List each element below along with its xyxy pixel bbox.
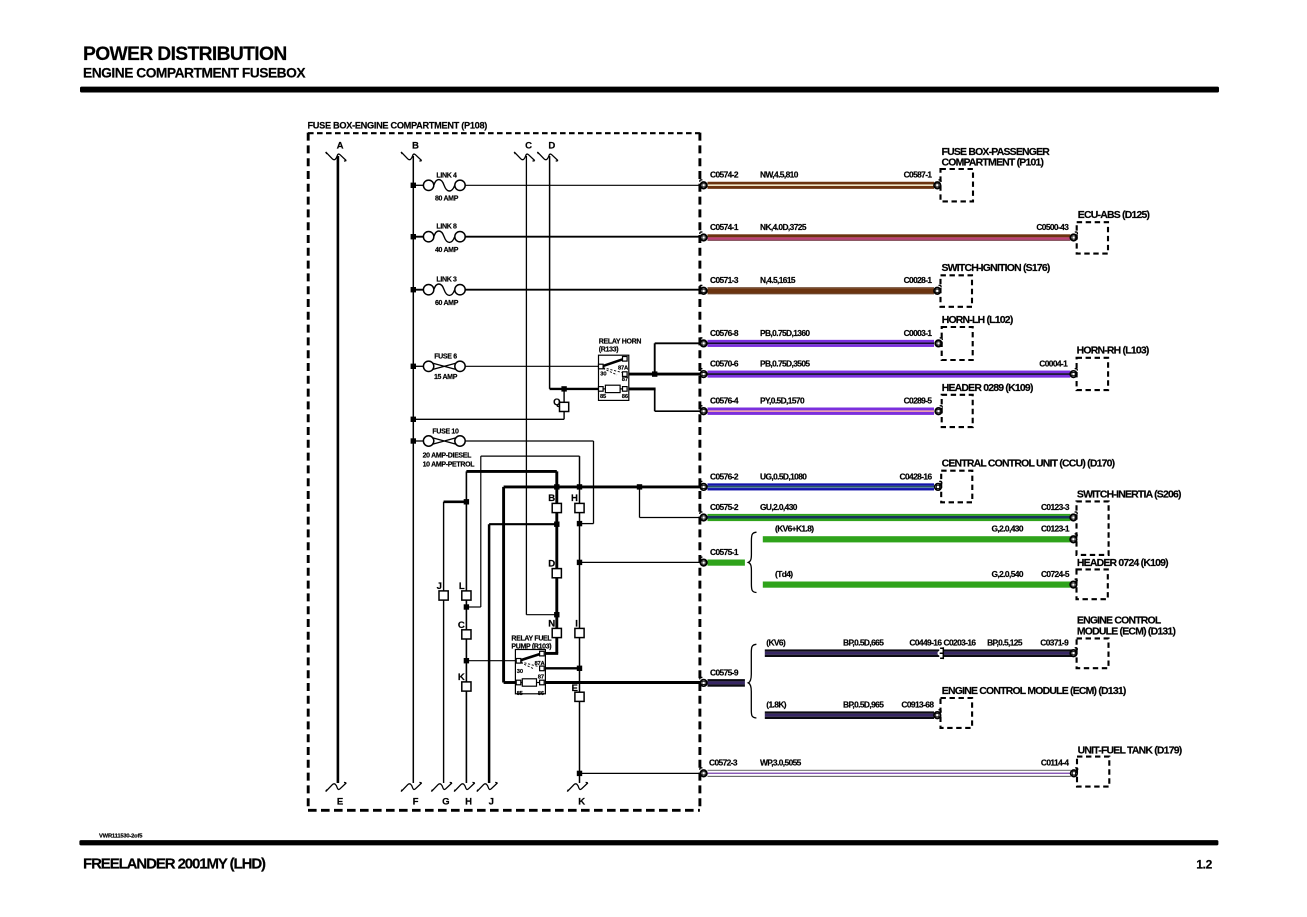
wire BP,0.5D,965 (1.8K) to C0913-68 [765, 700, 935, 719]
component L102 HORN-LH [942, 315, 1013, 360]
connector C0449-16 C0203-16 inline [938, 647, 944, 659]
wire horn87A output [655, 342, 704, 344]
svg-text:K: K [458, 672, 465, 683]
wire Q upper lead [563, 389, 565, 402]
connector C0500-43 [1070, 232, 1077, 241]
svg-text:C0289-5: C0289-5 [904, 396, 933, 406]
connector C0576-2 [700, 481, 707, 490]
svg-text:87: 87 [622, 377, 628, 383]
connector pin L (fusebox) [459, 581, 471, 600]
svg-text:HEADER 0289 (K109): HEADER 0289 (K109) [942, 383, 1033, 394]
terminal B [401, 152, 422, 161]
svg-text:FUSE 10: FUSE 10 [432, 428, 459, 435]
svg-text:SWITCH-INERTIA (S206): SWITCH-INERTIA (S206) [1077, 489, 1181, 500]
svg-text:C0123-3: C0123-3 [1041, 502, 1070, 512]
connector C0428-16 [935, 481, 942, 490]
component P101 FUSE BOX-PASSENGER COMPARTMENT [941, 147, 1051, 202]
connector C0003-1 [935, 338, 942, 347]
wire fuel relay30 input [466, 660, 516, 662]
node junction 579.5,486.9 [577, 484, 582, 489]
connector pin J (fusebox) [437, 581, 449, 600]
svg-text:BP,0.5D,665: BP,0.5D,665 [843, 638, 884, 648]
wire C link y615 [526, 614, 556, 616]
brace split C0575-9 [748, 644, 756, 718]
wire bus D down [549, 156, 551, 389]
svg-text:LINK 3: LINK 3 [436, 277, 457, 284]
component K109 HEADER 0289 [942, 383, 1033, 427]
node junction 413.3,419.3 [411, 417, 416, 422]
svg-text:HEADER 0724 (K109): HEADER 0724 (K109) [1077, 558, 1168, 569]
svg-text:LINK 4: LINK 4 [436, 172, 457, 179]
svg-text:UG,0.5D,1080: UG,0.5D,1080 [760, 471, 807, 481]
svg-text:BP,0.5D,965: BP,0.5D,965 [843, 700, 884, 710]
wire horn86 drop [654, 389, 656, 411]
svg-text:C0571-3: C0571-3 [710, 275, 739, 285]
wire GU feed y517 [640, 517, 704, 519]
wire C0575-1 feed y562 [580, 561, 704, 563]
svg-text:60 AMP: 60 AMP [435, 300, 459, 307]
svg-text:FUSE 6: FUSE 6 [434, 354, 457, 361]
wire fuse10 link to K column [580, 523, 594, 525]
svg-text:30: 30 [600, 371, 606, 377]
svg-text:N,4.5,1615: N,4.5,1615 [760, 275, 796, 285]
node junction 413.3,441 [411, 438, 416, 443]
terminal F [401, 782, 422, 791]
node junction 654.7,374.1 [652, 371, 657, 376]
component D131 ENGINE CONTROL MODULE (top) [1077, 615, 1176, 668]
svg-text:30: 30 [517, 669, 523, 675]
node junction 413.3,289.7 [411, 287, 416, 292]
svg-text:CENTRAL CONTROL UNIT (CCU) (D1: CENTRAL CONTROL UNIT (CCU) (D170) [942, 459, 1115, 470]
connector C0576-8 [700, 338, 707, 347]
svg-text:C0428-16: C0428-16 [900, 471, 933, 481]
wire GU,2.0,430 C0575-2 to C0123-3 [708, 502, 1071, 521]
svg-text:87A: 87A [618, 365, 629, 371]
svg-text:POWER DISTRIBUTION: POWER DISTRIBUTION [83, 44, 287, 65]
connector C0913-68 [934, 710, 941, 719]
wire Q lower lead [563, 412, 565, 420]
connector C0004-1 [1070, 369, 1077, 378]
svg-text:(KV6+K1.8): (KV6+K1.8) [775, 524, 814, 534]
wire PB,0.75D,3505 C0570-6 to C0004-1 [708, 359, 1071, 378]
svg-text:HORN-LH (L102): HORN-LH (L102) [942, 315, 1013, 326]
svg-text:FUSE BOX-ENGINE COMPARTMENT (P: FUSE BOX-ENGINE COMPARTMENT (P108) [308, 120, 488, 130]
wire x481 top link [481, 455, 580, 457]
svg-text:15 AMP: 15 AMP [434, 374, 458, 381]
svg-text:C0123-1: C0123-1 [1041, 524, 1070, 534]
terminal C [514, 152, 535, 161]
connector pin Q (fusebox) [553, 397, 569, 412]
wire fuse10 output [466, 440, 594, 442]
connector C0576-4 [700, 406, 707, 415]
svg-text:J: J [437, 581, 442, 592]
svg-text:85: 85 [517, 691, 524, 697]
svg-text:C0574-2: C0574-2 [710, 170, 739, 180]
svg-text:WP,3.0,5055: WP,3.0,5055 [760, 758, 802, 768]
svg-text:FREELANDER 2001MY (LHD): FREELANDER 2001MY (LHD) [83, 855, 266, 872]
svg-text:HORN-RH (L103): HORN-RH (L103) [1077, 346, 1149, 357]
svg-text:L: L [459, 581, 465, 592]
connector C0575-1 [700, 557, 707, 566]
fuse FUSE10 [423, 436, 433, 446]
terminal G [431, 782, 452, 791]
connector C0123-1 [1070, 534, 1077, 543]
svg-text:C0371-9: C0371-9 [1040, 638, 1069, 648]
node junction 466.4,501.8 [464, 499, 469, 504]
connector pin I (fusebox) [575, 618, 584, 637]
connector pin C (fusebox) [458, 620, 471, 639]
svg-text:40 AMP: 40 AMP [435, 247, 459, 254]
node junction 579.5,773.4 [577, 771, 582, 776]
svg-text:C0576-2: C0576-2 [710, 471, 739, 481]
svg-text:C0570-6: C0570-6 [710, 359, 739, 369]
wire link8 stub [413, 236, 424, 238]
svg-text:20 AMP-DIESEL: 20 AMP-DIESEL [423, 452, 473, 459]
component K109 HEADER 0724 [1077, 558, 1169, 599]
terminal K2 [567, 782, 588, 791]
svg-text:D: D [548, 141, 555, 152]
svg-text:SWITCH-IGNITION (S176): SWITCH-IGNITION (S176) [942, 263, 1050, 274]
wire fuel86 output C0575-9 [544, 681, 703, 684]
svg-text:C0449-16: C0449-16 [909, 638, 942, 648]
connector C0114-4 [1071, 768, 1078, 777]
node junction 579.5,668.3 [577, 666, 582, 671]
svg-text:C0724-5: C0724-5 [1041, 569, 1070, 579]
wire bus B-N column x557 [555, 471, 558, 653]
svg-text:G,2.0,430: G,2.0,430 [992, 524, 1024, 534]
svg-text:H: H [571, 493, 578, 504]
svg-text:LINK 8: LINK 8 [436, 224, 457, 231]
node junction 579.5,562.4 [577, 560, 582, 565]
wire WP,3.0,5055 C0572-3 to C0114-4 [708, 758, 1071, 777]
wire fuse6 stub [413, 365, 424, 367]
connector C0575-2 [700, 512, 707, 521]
fusible link LINK3 60A [423, 285, 433, 295]
svg-text:MODULE (ECM) (D131): MODULE (ECM) (D131) [1077, 627, 1176, 638]
svg-text:PY,0.5D,1570: PY,0.5D,1570 [760, 396, 805, 406]
connector pin E (fusebox) [571, 683, 584, 702]
wire UG,0.5D,1080 C0576-2 to C0428-16 [708, 471, 935, 490]
svg-text:B: B [548, 493, 555, 504]
svg-text:C0203-16: C0203-16 [944, 638, 977, 648]
svg-text:VWR111530-2of5: VWR111530-2of5 [99, 834, 143, 840]
svg-text:ENGINE CONTROL MODULE (ECM) (D: ENGINE CONTROL MODULE (ECM) (D131) [942, 686, 1126, 697]
svg-text:E: E [571, 683, 578, 694]
wire horn86 output [627, 387, 656, 390]
terminal E [326, 782, 347, 791]
svg-text:ENGINE COMPARTMENT FUSEBOX: ENGINE COMPARTMENT FUSEBOX [83, 66, 306, 81]
svg-text:C0028-1: C0028-1 [904, 275, 933, 285]
connector C0572-3 [700, 768, 707, 777]
svg-text:PB,0.75D,1360: PB,0.75D,1360 [760, 328, 810, 338]
svg-text:86: 86 [538, 691, 545, 697]
svg-text:COMPARTMENT (P101): COMPARTMENT (P101) [942, 157, 1044, 168]
wire link4 output [465, 184, 704, 186]
wire fuel87 output [544, 667, 579, 669]
wire link8 output [465, 236, 704, 238]
wire fuse10 drop x593 [593, 441, 595, 524]
svg-text:C0500-43: C0500-43 [1036, 222, 1069, 232]
svg-text:N: N [548, 618, 555, 629]
svg-text:UNIT-FUEL TANK (D179): UNIT-FUEL TANK (D179) [1078, 746, 1182, 757]
wire J-terminal link y524 [489, 523, 557, 525]
connector pin B (fusebox) [548, 493, 561, 513]
fusible link LINK8 40A [423, 232, 433, 242]
wire fuel85 feed [504, 681, 517, 684]
connector C0371-9 [1070, 648, 1077, 657]
wire connector-J column [443, 502, 445, 783]
connector C0028-1 [934, 285, 941, 294]
wire link3 stub [413, 289, 424, 291]
wire fuse6 to relay30 [466, 365, 599, 367]
component S176 SWITCH-IGNITION [941, 263, 1050, 307]
svg-text:1.2: 1.2 [1196, 857, 1212, 871]
wire horn87A riser [654, 343, 656, 374]
svg-text:RELAY FUEL: RELAY FUEL [511, 635, 552, 642]
svg-text:ECU-ABS (D125): ECU-ABS (D125) [1078, 210, 1150, 221]
svg-text:E: E [337, 797, 344, 808]
connector pin H (fusebox) [571, 493, 584, 513]
svg-text:C0572-3: C0572-3 [709, 758, 738, 768]
wire N,4.5,1615 C0571-3 to C0028-1 [708, 275, 935, 294]
wire fuel87A feed [544, 652, 558, 655]
svg-text:C0004-1: C0004-1 [1039, 359, 1068, 369]
svg-text:C0575-2: C0575-2 [710, 502, 739, 512]
terminal H2 [454, 782, 475, 791]
wire NW,4.5,810 C0574-2 to C0587-1 [708, 170, 935, 189]
svg-text:(R133): (R133) [599, 347, 618, 354]
svg-text:NK,4.0D,3725: NK,4.0D,3725 [760, 222, 807, 232]
component S206 SWITCH-INERTIA [1077, 489, 1182, 555]
wire NK,4.0D,3725 C0574-1 to C0500-43 [708, 222, 1071, 241]
node junction 564.1,388.9 [561, 386, 566, 391]
wire link3 output [465, 289, 704, 291]
terminal J2 [477, 782, 498, 791]
svg-text:B: B [412, 141, 419, 152]
node junction 466.4,660.7 [464, 658, 469, 663]
svg-text:PB,0.75D,3505: PB,0.75D,3505 [760, 359, 810, 369]
wire PB,0.75D,1360 C0576-8 to C0003-1 [708, 328, 935, 347]
node junction 413.3,366.3 [411, 364, 416, 369]
component D170 CENTRAL CONTROL UNIT [941, 459, 1114, 503]
svg-text:F: F [413, 797, 419, 808]
component L103 HORN-RH [1077, 346, 1149, 390]
wire bus B-F [412, 156, 414, 783]
wire B to Q [413, 418, 564, 420]
wire L link y607 [466, 606, 480, 608]
wire WP feed y773 [580, 772, 704, 774]
brace split C0575-1 [748, 532, 756, 592]
wire link column x481 [480, 456, 482, 607]
wire G,2.0,540 (Td4) to C0724-5 [763, 569, 1071, 588]
svg-text:Q: Q [553, 397, 561, 408]
wire stub C0575-1 [708, 547, 745, 566]
connector pin N (fusebox) [548, 618, 561, 637]
wire stub C0575-9 [708, 667, 745, 686]
terminal A [326, 152, 347, 161]
wire fuse10 stub [413, 440, 424, 442]
wire PY,0.5D,1570 C0576-4 to C0289-5 [708, 396, 935, 415]
svg-text:87A: 87A [535, 661, 546, 667]
connector C0570-6 [700, 369, 707, 378]
wire bus C down [525, 156, 527, 615]
component D125 ECU-ABS [1077, 210, 1150, 253]
svg-text:85: 85 [600, 394, 607, 400]
svg-text:A: A [337, 141, 344, 152]
connector C0571-3 [700, 285, 707, 294]
relay R103 RELAY FUEL PUMP [511, 635, 552, 697]
node junction 466.4,607 [464, 604, 469, 609]
connector C0575-9 [700, 677, 707, 686]
svg-text:G,2.0,540: G,2.0,540 [992, 569, 1024, 579]
header rule [80, 87, 1219, 93]
connector pin D (fusebox) [548, 559, 561, 578]
wire J branch y502 [444, 500, 467, 503]
relay R133 RELAY HORN [599, 338, 642, 400]
svg-text:C0574-1: C0574-1 [710, 222, 739, 232]
fusible link LINK4 80A [423, 180, 433, 190]
wire D to horn coil85 [550, 388, 599, 390]
wire J-terminal riser [488, 524, 491, 783]
node junction 413.3,236.7 [411, 234, 416, 239]
svg-text:87: 87 [538, 674, 544, 680]
wire GU drop x639 [639, 487, 641, 518]
svg-text:ENGINE CONTROL: ENGINE CONTROL [1077, 615, 1162, 626]
wire link4 stub [413, 184, 424, 186]
svg-text:C0003-1: C0003-1 [904, 328, 933, 338]
connector C0574-2 [700, 180, 707, 189]
component D131 ENGINE CONTROL MODULE (bottom) [941, 686, 1126, 728]
connector C0574-1 [700, 232, 707, 241]
svg-text:NW,4.5,810: NW,4.5,810 [760, 170, 799, 180]
svg-text:C0587-1: C0587-1 [904, 170, 933, 180]
svg-text:K: K [578, 797, 585, 808]
svg-text:GU,2.0,430: GU,2.0,430 [760, 502, 798, 512]
svg-text:C: C [458, 620, 465, 631]
svg-text:C0913-68: C0913-68 [901, 700, 934, 710]
node junction 413.3,185.3 [411, 183, 416, 188]
wire thick top link y471 [466, 470, 556, 473]
node junction 579.5,523.6 [577, 521, 582, 526]
svg-text:C: C [525, 141, 532, 152]
svg-text:(KV6): (KV6) [766, 638, 786, 648]
node junction 556.8,614.7 [554, 612, 559, 617]
svg-text:FUSE BOX-PASSENGER: FUSE BOX-PASSENGER [942, 147, 1051, 158]
svg-text:10 AMP-PETROL: 10 AMP-PETROL [423, 462, 476, 469]
svg-text:C0114-4: C0114-4 [1041, 758, 1069, 768]
fuse box P108 dashed border [308, 133, 700, 811]
connector C0123-3 [1070, 512, 1077, 521]
svg-text:H: H [465, 797, 472, 808]
svg-text:(Td4): (Td4) [775, 569, 793, 579]
terminal D [537, 152, 558, 161]
svg-text:G: G [442, 797, 449, 808]
svg-text:J: J [489, 797, 494, 808]
svg-text:C0576-8: C0576-8 [710, 328, 739, 338]
svg-text:86: 86 [622, 394, 629, 400]
svg-text:C0576-4: C0576-4 [710, 396, 739, 406]
node junction 556.8,524.2 [554, 522, 559, 527]
fuse FUSE6 15A [423, 361, 433, 371]
wire BP,0.5D,665 / BP,0.5,125 (KV6) to C0371-9 [765, 638, 1072, 657]
svg-text:C0575-1: C0575-1 [710, 547, 739, 557]
svg-text:(1.8K): (1.8K) [766, 700, 786, 710]
wire horn87 output [627, 373, 704, 376]
connector C0724-5 [1070, 579, 1077, 588]
svg-text:80 AMP: 80 AMP [435, 196, 459, 203]
svg-text:D: D [548, 559, 555, 570]
wire bus A-E [337, 156, 340, 783]
node junction 639.5,486.9 [637, 484, 642, 489]
connector C0587-1 [934, 180, 941, 189]
wire connector-L column [465, 471, 467, 783]
node junction 556.8,486.9 [554, 484, 559, 489]
svg-text:BP,0.5,125: BP,0.5,125 [987, 638, 1023, 648]
connector pin K (fusebox) [458, 672, 471, 691]
component D179 UNIT-FUEL TANK [1077, 746, 1182, 787]
wire G,2.0,430 (KV6+K1.8) to C0123-1 [763, 524, 1071, 543]
svg-text:RELAY HORN: RELAY HORN [599, 338, 642, 345]
svg-text:C0575-9: C0575-9 [710, 667, 739, 677]
wire UG riser x504 [502, 487, 505, 683]
wire bus H-K column x580 [579, 456, 581, 783]
footer rule [79, 840, 1218, 845]
connector C0289-5 [935, 406, 942, 415]
svg-text:I: I [575, 618, 578, 629]
wire UG bus y487 [504, 485, 704, 488]
